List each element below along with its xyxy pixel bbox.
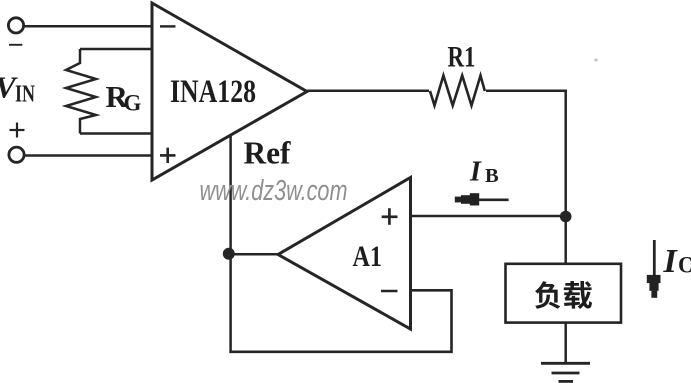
svg-text:Ref: Ref — [244, 136, 291, 171]
resistor R1 zigzag — [430, 76, 485, 106]
svg-text:www.dz3w.com: www.dz3w.com — [200, 175, 348, 207]
wire load to ground — [564, 323, 567, 363]
svg-text:INA128: INA128 — [170, 74, 256, 110]
wire output node vertical down to load — [564, 91, 567, 264]
svg-text:I: I — [469, 157, 482, 188]
stray print speck — [594, 58, 597, 61]
svg-text:R1: R1 — [448, 40, 476, 73]
svg-text:G: G — [124, 91, 142, 116]
wire Ref pin vertical — [229, 135, 232, 353]
load box 负载 — [506, 264, 622, 323]
load label 负 glyph — [535, 281, 560, 309]
resistor RG top stub wire — [80, 48, 153, 51]
INA128 plus input mark — [160, 148, 176, 163]
svg-text:A1: A1 — [353, 240, 383, 273]
wire A1 feedback loop bottom — [229, 290, 451, 352]
svg-text:O: O — [678, 253, 691, 278]
svg-text:B: B — [485, 165, 499, 187]
INA128 minus input mark — [160, 25, 176, 27]
op-amp A1 triangle body — [278, 178, 411, 330]
wire top input to INA128 - input — [24, 25, 153, 28]
ground symbol — [541, 363, 590, 381]
node junction dot at Ref/A1 output — [223, 248, 235, 260]
resistor RG zigzag body — [66, 49, 96, 134]
wire A1 output to Ref node — [229, 253, 279, 256]
load label 载 glyph — [564, 281, 592, 309]
terminal bottom-left input — [9, 147, 24, 162]
minus polarity mark below top terminal — [9, 44, 22, 46]
A1 minus input mark — [381, 290, 398, 293]
terminal top-left input — [8, 18, 23, 33]
A1 plus input mark — [382, 208, 398, 225]
plus polarity mark above bottom terminal — [10, 123, 25, 138]
wire INA128 output to resistor R1 — [307, 90, 429, 93]
current IB arrow — [455, 193, 509, 205]
resistor RG bottom stub wire — [80, 132, 153, 135]
current IO arrow — [647, 240, 661, 298]
wire A1 + input to output node — [411, 215, 566, 218]
svg-text:I: I — [663, 243, 679, 280]
wire R1 to output node — [486, 90, 567, 93]
node junction dot at output node — [560, 211, 572, 223]
wire bottom input to INA128 + input — [24, 154, 153, 157]
op-amp U1 INA128 triangle body — [152, 3, 307, 180]
svg-text:IN: IN — [15, 82, 36, 108]
